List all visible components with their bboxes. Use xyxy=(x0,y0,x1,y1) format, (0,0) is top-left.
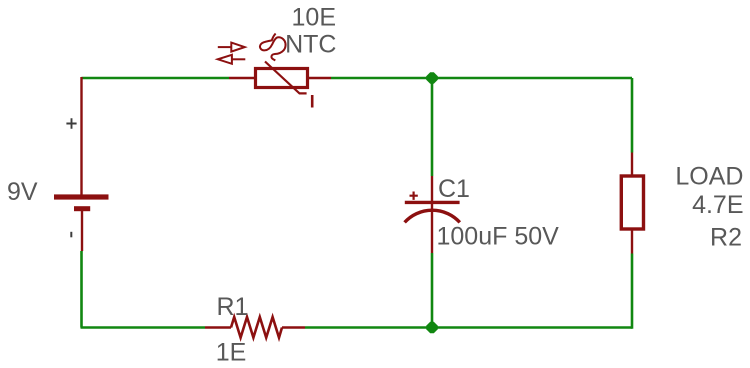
resistor R2 body box xyxy=(621,176,643,229)
resistor R1 lead left xyxy=(205,326,231,328)
thermistor NTC lead left xyxy=(229,77,256,79)
wire right vertical xyxy=(631,78,634,329)
capacitor C1 bottom plate arc xyxy=(405,210,460,222)
node A junction top xyxy=(426,72,438,84)
capacitor plus sign xyxy=(410,192,418,200)
battery 9V xyxy=(54,194,109,211)
current arrow left xyxy=(218,55,246,64)
svg-text:4.7E: 4.7E xyxy=(692,191,743,219)
svg-text:9V: 9V xyxy=(7,178,38,206)
current arrow right xyxy=(218,43,245,52)
capacitor C1 top plate xyxy=(405,201,460,204)
wire top net (battery+ to NTC to node A to R2) xyxy=(82,77,633,80)
thermistor NTC body box xyxy=(256,69,308,88)
svg-text:100uF 50V: 100uF 50V xyxy=(437,222,560,250)
thermistor NTC lead right xyxy=(308,77,332,79)
thermistor theta squiggle xyxy=(260,34,286,61)
wire middle vertical (node A to C1 to node B) xyxy=(431,78,434,328)
svg-text:C1: C1 xyxy=(438,175,470,203)
svg-text:LOAD: LOAD xyxy=(675,162,743,190)
capacitor C1 inner lead xyxy=(431,204,433,253)
wire bottom net xyxy=(81,326,633,329)
thermistor diagonal strike with foot xyxy=(265,62,307,94)
thermistor tick mark xyxy=(311,95,314,108)
wire battery - lead xyxy=(81,211,83,251)
battery plus sign xyxy=(66,118,76,129)
resistor R1 lead right xyxy=(282,326,305,328)
resistor R1 zigzag xyxy=(231,317,282,338)
svg-text:NTC: NTC xyxy=(285,31,336,59)
wire left vertical battery + lead xyxy=(80,77,82,195)
node B junction bottom xyxy=(426,322,438,334)
svg-text:10E: 10E xyxy=(292,3,336,31)
svg-text:1E: 1E xyxy=(216,338,247,366)
resistor R2 lead lower xyxy=(631,228,633,254)
capacitor C1 lead upper xyxy=(431,176,433,201)
svg-text:R2: R2 xyxy=(710,224,742,252)
resistor R2 lead upper xyxy=(631,153,633,178)
svg-text:R1: R1 xyxy=(217,293,249,321)
battery minus sign xyxy=(70,232,72,238)
wire left vertical lower (green) xyxy=(80,251,83,328)
